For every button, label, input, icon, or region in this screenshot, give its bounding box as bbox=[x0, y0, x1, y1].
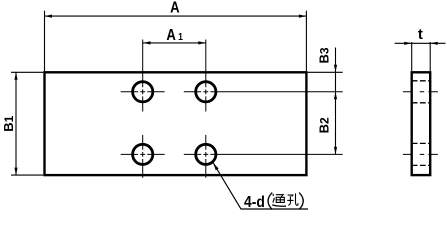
dimension B1 dimension line bbox=[15, 72, 17, 175]
dimension A1 dimension line bbox=[143, 42, 206, 44]
shared arrowhead at upper hole centerline bbox=[334, 92, 337, 100]
side view upper centerline bbox=[403, 91, 438, 93]
hole upper-right circle bbox=[196, 82, 216, 102]
dimension t left arrowhead bbox=[404, 42, 412, 45]
leader arrowhead bbox=[213, 163, 218, 170]
dimension B2 bottom arrowhead bbox=[334, 147, 337, 155]
hole upper-left vertical centerline (A1 extension) bbox=[142, 40, 144, 112]
side view hidden line upper hole bottom bbox=[412, 102, 431, 104]
dimension A1 right arrowhead bbox=[198, 41, 206, 44]
leader label close paren bbox=[299, 193, 303, 210]
side view lower centerline bbox=[403, 153, 438, 155]
side view hidden line upper hole top bbox=[412, 80, 431, 82]
leader label open paren bbox=[268, 193, 272, 210]
dimension B1 bottom arrowhead bbox=[14, 168, 17, 176]
svg-text:B2: B2 bbox=[316, 117, 331, 133]
svg-text:B3: B3 bbox=[316, 47, 331, 63]
hole upper-right vertical centerline (A1 extension) bbox=[205, 40, 207, 112]
hole lower-right horizontal centerline (B2 extension) bbox=[184, 153, 343, 155]
dimension t extension line right bbox=[429, 42, 431, 71]
dimension t dimension line bbox=[395, 42, 446, 44]
dimension B3 extension line (plate top edge extended) bbox=[308, 71, 343, 73]
dimension A right arrowhead bbox=[299, 15, 307, 18]
leader line to lower-right hole bbox=[213, 163, 308, 209]
side view outline bbox=[412, 72, 431, 175]
side view hidden line lower hole bottom bbox=[412, 164, 431, 166]
dimension A left arrowhead bbox=[45, 15, 53, 18]
dimension B1 top arrowhead bbox=[14, 72, 17, 80]
dimension B1 extension line top bbox=[11, 71, 43, 73]
hole lower-right vertical centerline bbox=[205, 135, 207, 178]
hole upper-left circle bbox=[133, 82, 153, 102]
svg-text:4-d: 4-d bbox=[244, 193, 265, 211]
dimension A1 left arrowhead bbox=[143, 41, 151, 44]
plate outline front view bbox=[45, 72, 307, 175]
hole lower-right circle bbox=[196, 144, 216, 164]
hole upper-left horizontal centerline bbox=[121, 91, 165, 93]
svg-text:A: A bbox=[170, 0, 180, 17]
hole lower-left horizontal centerline bbox=[121, 153, 165, 155]
svg-text:t: t bbox=[418, 26, 423, 43]
hole lower-left circle bbox=[133, 144, 153, 164]
dimension A extension line left bbox=[44, 11, 46, 71]
dimension A dimension line bbox=[45, 15, 307, 17]
side view hidden line lower hole top bbox=[412, 142, 431, 144]
dimension t extension line left bbox=[411, 42, 413, 71]
dimension t right arrowhead bbox=[430, 42, 438, 45]
dimension B3/B2 dimension line bbox=[335, 48, 337, 155]
leader label kanji kong bbox=[287, 193, 298, 205]
hole lower-left vertical centerline bbox=[142, 135, 144, 178]
dimension A extension line right bbox=[305, 11, 307, 71]
leader label kanji tong bbox=[272, 194, 286, 206]
dimension B3 top arrowhead bbox=[334, 65, 337, 73]
svg-text:B1: B1 bbox=[1, 115, 16, 131]
hole upper-right horizontal centerline (B3/B2 extension) bbox=[184, 91, 343, 93]
dimension B1 extension line bottom bbox=[11, 174, 43, 176]
